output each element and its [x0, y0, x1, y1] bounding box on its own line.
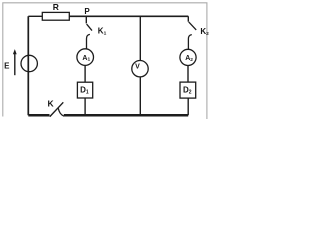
switch K right contact hook — [58, 108, 64, 116]
source E circle — [21, 55, 37, 71]
wire left vertical branch — [27, 16, 29, 115]
wire top-left segment — [28, 15, 42, 17]
switch K2 top stub — [187, 16, 189, 21]
wire voltmeter branch top — [139, 16, 141, 60]
voltmeter V circle — [132, 60, 148, 76]
wire top middle segment — [69, 15, 188, 17]
svg-text:K: K — [48, 98, 55, 108]
wire D1 to bottom — [84, 98, 86, 115]
box D1 — [77, 82, 92, 98]
resistor R — [42, 12, 69, 20]
switch K blade — [50, 102, 64, 116]
wire voltmeter branch bottom — [139, 77, 141, 115]
ammeter A1 circle — [77, 49, 94, 66]
bottom wire left segment — [28, 114, 49, 117]
arrow E (EMF direction) — [14, 54, 16, 76]
wire A1 to D1 — [84, 65, 86, 82]
switch K1 lower contact hook — [87, 34, 90, 49]
figure frame border — [3, 3, 207, 119]
switch K2 blade — [189, 22, 197, 30]
wire D2 to bottom corner — [187, 98, 189, 115]
ammeter A2 circle — [180, 49, 196, 65]
arrowhead — [13, 49, 17, 54]
switch K1 top stub — [85, 16, 87, 23]
svg-text:V: V — [135, 64, 140, 71]
wire A2 to D2 — [187, 66, 189, 83]
switch K2 lower contact hook — [188, 35, 191, 50]
svg-text:E: E — [4, 62, 10, 71]
bottom wire main segment — [64, 114, 188, 117]
svg-text:P: P — [84, 7, 90, 16]
switch K1 blade — [87, 24, 92, 31]
box D2 — [180, 82, 196, 98]
svg-text:R: R — [53, 2, 59, 12]
